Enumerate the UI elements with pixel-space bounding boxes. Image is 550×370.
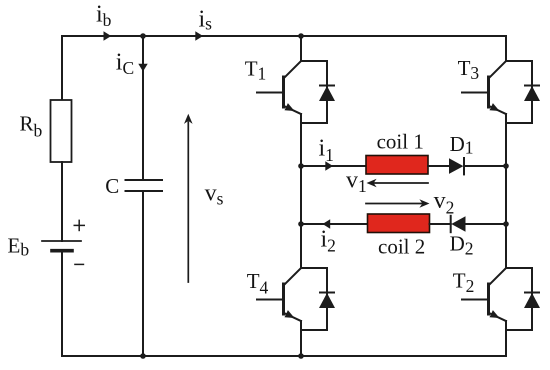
diode antiparallel with T2 xyxy=(506,268,540,330)
label battery plus xyxy=(74,220,86,232)
wire coil 1 to D1 xyxy=(428,165,449,167)
wire Rb to battery xyxy=(61,162,63,241)
coil 1 xyxy=(366,156,428,175)
node bottom rail / left leg xyxy=(298,353,304,359)
arrow current iC xyxy=(138,64,147,72)
arrow voltage v1 xyxy=(367,179,429,188)
wire left leg T4 to bottom rail xyxy=(300,331,302,356)
node left leg / coil1 branch xyxy=(298,163,304,169)
wire capacitor branch upper xyxy=(142,36,144,180)
svg-text:is: is xyxy=(199,6,213,33)
svg-text:coil 1: coil 1 xyxy=(377,129,424,153)
arrow voltage vs xyxy=(184,114,193,282)
svg-text:T4: T4 xyxy=(247,269,269,297)
wire D1 to right leg xyxy=(464,165,506,167)
svg-text:T3: T3 xyxy=(458,56,480,83)
svg-text:D1: D1 xyxy=(450,132,474,158)
wire right leg node D1 to node D2 xyxy=(505,166,507,224)
arrow current ib xyxy=(104,31,112,40)
wire battery to bottom rail xyxy=(61,251,63,357)
wire coil 2 to D2 xyxy=(430,223,451,225)
wire capacitor branch lower xyxy=(142,191,144,356)
wire left leg node i2 to T4 xyxy=(300,224,302,268)
resistor Rb xyxy=(51,100,72,162)
arrow current i2 xyxy=(323,219,331,228)
wire left rail upper xyxy=(61,36,63,100)
wire bottom rail xyxy=(62,355,506,357)
wire node i2 to coil 2 xyxy=(301,223,368,225)
transistor T3 xyxy=(462,61,506,124)
arrow current is xyxy=(195,31,203,40)
transistor T4 xyxy=(257,268,301,331)
svg-text:D2: D2 xyxy=(450,232,474,259)
wire right leg T2 to bottom rail xyxy=(505,331,507,356)
svg-text:i2: i2 xyxy=(321,227,336,256)
wire left leg T1 to node i1 xyxy=(300,124,302,166)
diode antiparallel with T4 xyxy=(301,268,335,330)
node top rail / left leg xyxy=(298,33,304,39)
transistor T1 xyxy=(257,61,301,124)
svg-text:Eb: Eb xyxy=(8,233,30,259)
transistor T2 xyxy=(462,268,506,331)
wire node i1 to coil 1 xyxy=(301,165,366,167)
wire left leg node i1 to node i2 xyxy=(300,166,302,224)
svg-text:ib: ib xyxy=(96,2,112,30)
node right leg / D1 branch xyxy=(503,163,509,169)
diode antiparallel with T1 xyxy=(301,61,335,123)
svg-text:Rb: Rb xyxy=(20,111,43,140)
svg-text:i1: i1 xyxy=(319,135,334,165)
capacitor C xyxy=(126,180,163,191)
svg-text:vs: vs xyxy=(205,180,224,208)
diode D2 xyxy=(451,216,466,232)
label battery minus xyxy=(74,263,84,265)
node bottom rail / capacitor xyxy=(140,353,146,359)
node top rail / capacitor xyxy=(140,33,146,39)
svg-text:iC: iC xyxy=(116,50,134,78)
node left leg / coil2 branch xyxy=(298,221,304,227)
svg-text:v2: v2 xyxy=(434,188,455,217)
wire right leg node D2 to T2 xyxy=(505,224,507,268)
svg-text:C: C xyxy=(105,174,119,198)
wire D2 to right leg xyxy=(466,223,507,225)
arrow voltage v2 xyxy=(366,199,430,208)
wire top rail xyxy=(62,35,506,37)
svg-text:T1: T1 xyxy=(245,57,267,84)
wire right leg T3 to node D1 xyxy=(505,124,507,166)
svg-text:T2: T2 xyxy=(453,268,475,296)
coil 2 xyxy=(368,214,430,233)
wire right bridge leg top xyxy=(505,36,507,61)
node right leg / D2 branch xyxy=(503,221,509,227)
svg-text:v1: v1 xyxy=(346,168,367,197)
arrow current i1 xyxy=(325,161,333,170)
diode antiparallel with T3 xyxy=(506,61,540,123)
wire left bridge leg top xyxy=(300,36,302,61)
battery Eb xyxy=(42,241,81,251)
diode D1 xyxy=(449,158,464,174)
svg-text:coil 2: coil 2 xyxy=(378,234,425,258)
